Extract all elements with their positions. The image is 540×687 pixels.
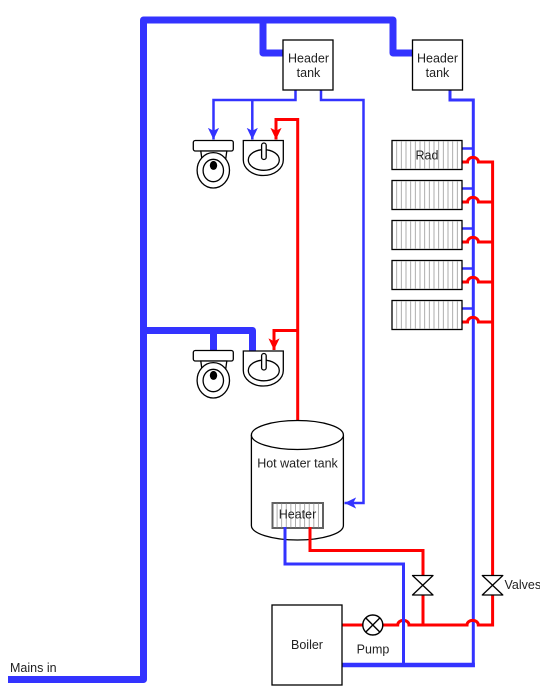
sink S2 basin: [243, 351, 283, 386]
boiler: [272, 605, 342, 685]
wire: valve 2 down and pump flow line to boiler with hops (red): [342, 595, 493, 625]
sink S1 basin: [243, 141, 283, 176]
wire: cold feed from Header tank 1 to hot water tank (blue, arrow): [321, 90, 364, 503]
wire: heating return manifold (blue, from Header tank 2 down to boiler): [450, 90, 473, 667]
svg-text:Header: Header: [288, 52, 329, 66]
hot water tank cylinder: [251, 421, 343, 541]
label: Mains in: [10, 661, 57, 675]
svg-text:tank: tank: [297, 66, 321, 80]
svg-text:Valves: Valves: [505, 578, 540, 592]
wire: radiator 1 blue stub: [459, 147, 473, 150]
valve V2: [482, 576, 540, 596]
svg-text:Mains in: Mains in: [10, 661, 57, 675]
sink S2 tap: [262, 354, 267, 371]
wire: radiator flow manifold (red, right side down to valve 2): [462, 157, 493, 575]
svg-text:Header: Header: [417, 52, 458, 66]
heater (immersion coil) inside tank: [273, 503, 324, 528]
wire: radiator 2 blue stub: [459, 187, 473, 190]
wire: mains cold water main run (bottom-left, up left side, across top, down to Header tank 2): [8, 20, 413, 680]
wire: hot water from heater to boiler return (blue): [285, 527, 404, 666]
wire: valve 1 to pump line (red): [422, 595, 425, 625]
wire: hot water riser from tank top to sink 1 (red, arrow): [276, 120, 298, 425]
toilet T2 cistern: [193, 351, 233, 362]
wire: boiler return pipe (blue, bottom): [342, 663, 475, 668]
toilet T2 bowl: [197, 363, 229, 398]
radiator 4: [392, 261, 462, 290]
toilet T2 seat back: [201, 361, 227, 369]
radiator 5: [392, 301, 462, 330]
toilet T1 cistern: [193, 141, 233, 152]
radiator 3: [392, 221, 462, 250]
wire: hot water branch to sink 2 (red, arrow): [274, 331, 298, 351]
wire: radiator 4 blue stub: [459, 267, 473, 270]
wire: mains branch to downstairs bathroom (toilet 2 and sink 2): [144, 331, 253, 353]
wire: mains branch drop into Header tank 1: [263, 17, 284, 53]
wire: mains drop to toilet 2 cistern: [210, 327, 217, 352]
toilet T1 seat back: [201, 151, 227, 159]
wire: radiator 3 blue stub: [459, 227, 473, 230]
wire: radiator 4 red stub with hop: [462, 277, 493, 282]
radiator 2: [392, 181, 462, 210]
svg-text:tank: tank: [426, 66, 450, 80]
wire: radiator 3 red stub with hop: [462, 237, 493, 242]
wire: radiator 5 blue stub: [459, 307, 473, 310]
pump (circle with cross): [357, 615, 390, 657]
svg-text:Rad: Rad: [416, 149, 439, 163]
header tank 1: [283, 40, 333, 90]
wire: cold feed from Header tank 1 to toilet 1 (blue, arrow): [214, 90, 296, 140]
svg-text:Hot water tank: Hot water tank: [257, 457, 338, 471]
toilet T1 bowl: [197, 153, 229, 188]
wire: cold feed branch to sink 1 (blue, arrow): [251, 100, 254, 140]
wire: radiator 5 red stub with hop: [462, 317, 493, 322]
valve V1: [413, 576, 434, 596]
svg-text:Heater: Heater: [279, 508, 317, 522]
header tank 2: [413, 40, 463, 90]
radiator 1 (Rad): [392, 141, 462, 170]
svg-text:Pump: Pump: [357, 643, 390, 657]
wire: heating flow from heater coil to valve 1 (red): [310, 527, 423, 576]
wire: radiator 2 red stub with hop: [462, 197, 493, 202]
svg-text:Boiler: Boiler: [291, 638, 323, 652]
sink S1 tap: [262, 143, 267, 160]
